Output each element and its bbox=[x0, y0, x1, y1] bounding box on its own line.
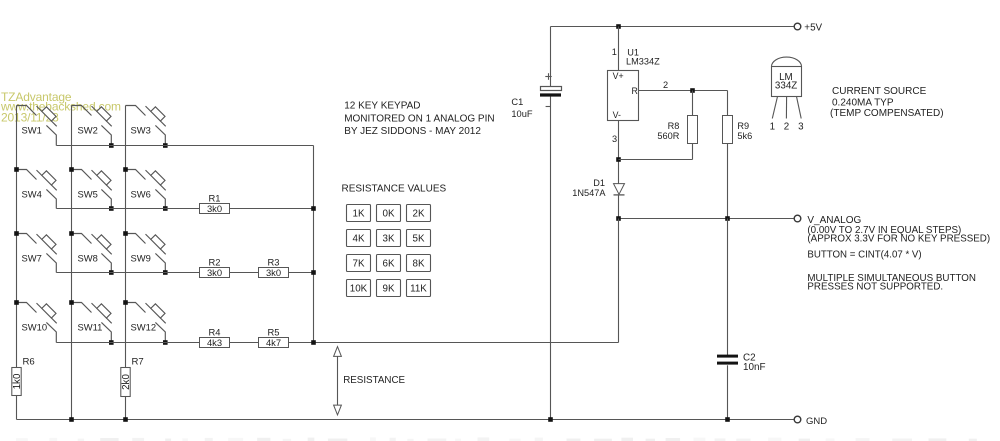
svg-text:(APPROX 3.3V FOR NO KEY PRESSE: (APPROX 3.3V FOR NO KEY PRESSED) bbox=[807, 234, 990, 245]
svg-text:0K: 0K bbox=[383, 209, 395, 220]
svg-text:SW3: SW3 bbox=[131, 124, 151, 135]
svg-text:SW11: SW11 bbox=[78, 321, 103, 332]
svg-text:4k7: 4k7 bbox=[266, 337, 281, 348]
svg-text:SW9: SW9 bbox=[131, 252, 151, 263]
svg-text:(TEMP COMPENSATED): (TEMP COMPENSATED) bbox=[830, 108, 944, 119]
svg-text:3k0: 3k0 bbox=[207, 267, 222, 278]
svg-text:+5V: +5V bbox=[804, 22, 822, 33]
svg-text:7K: 7K bbox=[353, 259, 365, 270]
svg-text:9K: 9K bbox=[383, 284, 395, 295]
svg-text:SW6: SW6 bbox=[131, 188, 151, 199]
svg-text:10nF: 10nF bbox=[743, 362, 766, 373]
svg-text:5K: 5K bbox=[413, 234, 425, 245]
svg-text:SW4: SW4 bbox=[22, 188, 42, 199]
svg-text:6K: 6K bbox=[383, 259, 395, 270]
svg-text:1: 1 bbox=[612, 47, 617, 57]
svg-text:1: 1 bbox=[770, 121, 775, 132]
svg-text:0.240MA TYP: 0.240MA TYP bbox=[832, 98, 894, 109]
svg-text:SW12: SW12 bbox=[131, 321, 157, 332]
svg-text:3k0: 3k0 bbox=[207, 203, 222, 214]
svg-text:2: 2 bbox=[663, 80, 668, 90]
svg-text:LM334Z: LM334Z bbox=[626, 57, 660, 67]
svg-text:R: R bbox=[631, 86, 637, 96]
svg-text:R7: R7 bbox=[132, 356, 144, 367]
svg-text:CURRENT SOURCE: CURRENT SOURCE bbox=[832, 86, 927, 97]
svg-text:R6: R6 bbox=[23, 356, 35, 367]
svg-text:SW5: SW5 bbox=[78, 188, 98, 199]
svg-text:R8: R8 bbox=[668, 121, 680, 131]
svg-text:10K: 10K bbox=[350, 284, 368, 295]
svg-text:3K: 3K bbox=[383, 234, 395, 245]
svg-text:3k0: 3k0 bbox=[266, 267, 281, 278]
svg-text:BUTTON = CINT(4.07 * V): BUTTON = CINT(4.07 * V) bbox=[807, 250, 921, 261]
svg-text:3: 3 bbox=[798, 121, 804, 132]
svg-text:1k0: 1k0 bbox=[12, 373, 23, 389]
svg-text:SW2: SW2 bbox=[78, 124, 98, 135]
svg-text:5k6: 5k6 bbox=[737, 131, 752, 141]
svg-text:D1: D1 bbox=[593, 178, 605, 188]
svg-text:1K: 1K bbox=[353, 209, 365, 220]
svg-text:SW1: SW1 bbox=[22, 124, 42, 135]
svg-text:MONITORED ON 1 ANALOG PIN: MONITORED ON 1 ANALOG PIN bbox=[344, 113, 494, 124]
svg-text:1N547A: 1N547A bbox=[572, 188, 606, 198]
svg-text:4k3: 4k3 bbox=[207, 337, 222, 348]
svg-text:PRESSES NOT SUPPORTED.: PRESSES NOT SUPPORTED. bbox=[807, 282, 943, 293]
svg-text:10uF: 10uF bbox=[511, 109, 533, 119]
svg-text:3: 3 bbox=[612, 134, 617, 144]
svg-text:V+: V+ bbox=[613, 71, 624, 81]
svg-text:R9: R9 bbox=[737, 121, 749, 131]
svg-text:12 KEY KEYPAD: 12 KEY KEYPAD bbox=[344, 101, 420, 112]
svg-text:2K: 2K bbox=[413, 209, 425, 220]
svg-text:SW7: SW7 bbox=[22, 252, 42, 263]
svg-text:C1: C1 bbox=[511, 97, 523, 107]
svg-text:V-: V- bbox=[613, 110, 621, 120]
svg-text:11K: 11K bbox=[410, 284, 427, 295]
svg-text:RESISTANCE: RESISTANCE bbox=[343, 375, 405, 386]
svg-text:BY JEZ SIDDONS - MAY 2012: BY JEZ SIDDONS - MAY 2012 bbox=[344, 126, 481, 137]
svg-text:SW10: SW10 bbox=[22, 321, 48, 332]
svg-text:8K: 8K bbox=[413, 259, 425, 270]
svg-text:560R: 560R bbox=[657, 131, 679, 141]
svg-text:4K: 4K bbox=[353, 234, 365, 245]
svg-text:RESISTANCE VALUES: RESISTANCE VALUES bbox=[342, 184, 447, 195]
svg-text:GND: GND bbox=[806, 416, 827, 427]
svg-text:2: 2 bbox=[784, 121, 789, 132]
svg-text:334Z: 334Z bbox=[775, 81, 797, 92]
svg-text:2k0: 2k0 bbox=[121, 374, 132, 390]
svg-text:SW8: SW8 bbox=[78, 252, 98, 263]
